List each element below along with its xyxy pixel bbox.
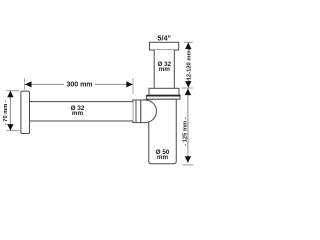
svg-text:- 70 mm -: - 70 mm - xyxy=(3,100,9,125)
dimension 300 mm line xyxy=(25,83,133,85)
body collar nut upper band xyxy=(149,88,179,95)
vertical inlet pipe O32 xyxy=(154,50,174,88)
horizontal outlet pipe O32 xyxy=(30,102,133,121)
svg-text:mm: mm xyxy=(157,154,169,161)
elbow top chamfer xyxy=(141,98,150,101)
extension line right of 300mm dim xyxy=(132,78,134,94)
svg-text:mm: mm xyxy=(72,110,84,117)
dimension 300 mm text xyxy=(64,80,95,89)
top nut 5/4 xyxy=(150,42,179,50)
dim 125mm bottom tick xyxy=(183,164,194,166)
dim 12-120mm line xyxy=(187,43,189,87)
dim 70mm ticks xyxy=(7,90,20,92)
svg-text:- 125 mm -: - 125 mm - xyxy=(183,117,189,146)
dim 12-120mm rotated label xyxy=(187,51,193,79)
extension line left of 300mm dim xyxy=(24,78,26,90)
dim 125mm line xyxy=(187,88,189,163)
dim 12-120mm ticks xyxy=(184,41,193,43)
elbow compression nut xyxy=(133,100,141,123)
dim 125mm arrows xyxy=(185,89,191,96)
svg-text:5/4": 5/4" xyxy=(157,33,171,42)
svg-text:mm: mm xyxy=(159,66,171,73)
trap body cup O50 xyxy=(149,99,177,164)
dimension 300 mm arrows xyxy=(25,81,32,87)
dim 70mm arrows xyxy=(7,91,13,98)
dim 12-120mm arrows xyxy=(185,43,191,50)
elbow D bump xyxy=(141,100,157,123)
wall flange rosette xyxy=(21,91,30,133)
body collar flange lower band xyxy=(147,95,181,99)
svg-text:-12-120 mm-: -12-120 mm- xyxy=(186,48,192,82)
dim 70mm line xyxy=(9,91,11,131)
svg-text:300 mm: 300 mm xyxy=(66,81,92,88)
